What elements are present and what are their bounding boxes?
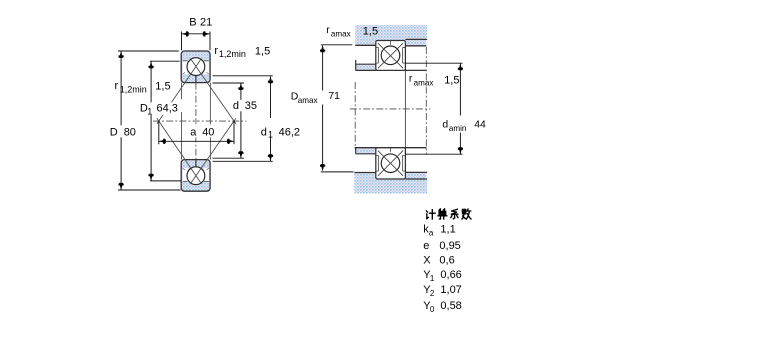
svg-text:r: r — [214, 45, 218, 57]
upper ring section — [181, 51, 210, 83]
lower ring split tick — [390, 148, 392, 152]
svg-text:r: r — [409, 73, 413, 84]
svg-text:21: 21 — [200, 16, 212, 28]
svg-text:d: d — [442, 120, 448, 131]
shaft seat line bottom — [355, 147, 427, 149]
shaft seat line top — [356, 69, 427, 71]
housing top-right bore and shoulder lines — [405, 39, 427, 45]
lower bearing box — [376, 148, 406, 179]
housing top hatch slab — [355, 25, 427, 40]
shaft shoulder top-left edges — [356, 60, 376, 70]
dimension a: dimension line — [159, 140, 234, 142]
svg-text:X: X — [423, 254, 431, 266]
svg-text:1,07: 1,07 — [440, 284, 461, 296]
housing bottom-left shoulder bore line — [354, 172, 375, 174]
horizontal axis centerline — [153, 120, 247, 122]
housing bottom-right shoulder hatch — [405, 172, 426, 179]
dimension B: dimension line — [182, 33, 211, 35]
svg-text:a: a — [429, 228, 434, 237]
housing bottom hatch slab — [354, 179, 427, 193]
svg-text:r: r — [115, 80, 119, 92]
svg-text:44: 44 — [474, 119, 486, 130]
dimension d1: line + arrows + extensions — [270, 76, 272, 161]
vertical centerline between sections — [195, 83, 197, 160]
svg-text:d: d — [233, 100, 239, 112]
svg-text:0: 0 — [430, 305, 435, 314]
upper ball contact X — [378, 43, 403, 68]
upper bearing raceway profiles — [376, 48, 405, 64]
contact-angle line bottom-ball through left vertex — [157, 118, 202, 184]
svg-text:1: 1 — [430, 274, 435, 283]
shaft axis centerline — [350, 108, 430, 110]
dimension B: extension lines — [182, 32, 211, 51]
svg-text:1,5: 1,5 — [155, 81, 170, 93]
upper bearing box — [376, 41, 406, 71]
svg-text:1,5: 1,5 — [363, 25, 378, 37]
svg-text:amin: amin — [449, 124, 467, 133]
shaft shoulder bottom-left hatch — [356, 148, 376, 154]
lower ball contact X — [378, 151, 403, 176]
contact-angle line top-ball through left vertex — [157, 59, 202, 124]
svg-text:d: d — [261, 126, 267, 138]
svg-text:amax: amax — [298, 96, 318, 105]
svg-text:amax: amax — [331, 30, 351, 39]
svg-text:0,66: 0,66 — [440, 269, 461, 281]
svg-text:a: a — [190, 127, 197, 139]
svg-text:1: 1 — [268, 130, 273, 140]
housing top-left shoulder hatch — [355, 40, 376, 46]
upper ball — [187, 58, 205, 76]
boundary centerline left — [354, 82, 356, 148]
svg-text:0,95: 0,95 — [439, 240, 460, 252]
upper bearing ball — [381, 46, 400, 65]
svg-text:1: 1 — [147, 106, 152, 116]
svg-text:r: r — [326, 25, 330, 36]
label d1 46,2 (with white mask) — [260, 118, 302, 137]
title 计算系数 (drawn as paths) — [426, 209, 471, 219]
lower ball — [187, 167, 205, 185]
svg-text:e: e — [423, 240, 429, 252]
shaft shoulder top-left hatch — [356, 64, 376, 70]
label Damax 71 (white mask) — [289, 91, 340, 105]
housing top-left shoulder bore line — [355, 44, 376, 46]
dimension d: line + arrows + extensions — [240, 83, 242, 158]
lower ring section — [181, 160, 210, 192]
dimension D1: line + arrows + extensions — [150, 61, 152, 181]
svg-text:amax: amax — [414, 79, 434, 88]
dimension a: arrows — [159, 139, 166, 143]
label D 80 (with white mask) — [108, 125, 136, 137]
svg-text:2: 2 — [430, 289, 435, 298]
label a 40 (with white mask) — [188, 124, 217, 137]
svg-text:1,2min: 1,2min — [120, 84, 147, 94]
label damin 44 (white mask) — [442, 116, 487, 133]
svg-text:64,3: 64,3 — [157, 103, 178, 115]
housing bottom-right bore and shoulder lines — [405, 172, 427, 179]
housing top-right shoulder hatch — [406, 40, 427, 46]
svg-text:71: 71 — [328, 91, 340, 102]
svg-text:0,58: 0,58 — [440, 300, 461, 312]
svg-text:1,5: 1,5 — [444, 75, 459, 87]
lower bearing ball — [381, 154, 400, 173]
svg-text:1,1: 1,1 — [440, 224, 455, 236]
svg-text:35: 35 — [245, 100, 257, 112]
svg-text:0,6: 0,6 — [439, 254, 454, 266]
svg-text:D: D — [110, 127, 118, 139]
boundary centerline right — [425, 47, 427, 154]
contact-angle line top-ball through right vertex — [190, 59, 236, 124]
bearing inner-ring face extension line — [404, 70, 406, 147]
label D1 64,3 (with white mask over dim line) — [138, 102, 180, 115]
bore silhouette line left — [181, 83, 183, 160]
svg-text:40: 40 — [202, 127, 214, 139]
dimension Damax: line + arrows + extensions — [322, 46, 324, 171]
dimension damin: line + arrows + extensions — [459, 63, 461, 154]
svg-text:1,2min: 1,2min — [219, 49, 246, 59]
bore silhouette line right — [209, 83, 211, 160]
dimension a: extension lines from diamond vertices — [159, 121, 234, 144]
shaft shoulder bottom-left edges — [356, 148, 376, 154]
contact-angle line bottom-ball through right vertex — [190, 118, 236, 184]
svg-text:80: 80 — [124, 127, 136, 139]
svg-text:1,5: 1,5 — [255, 45, 270, 57]
lower bearing raceway profiles — [376, 155, 405, 171]
label d 35 (with white mask) — [232, 100, 260, 112]
svg-text:46,2: 46,2 — [279, 127, 300, 139]
svg-text:B: B — [189, 16, 196, 28]
upper ring split tick — [390, 41, 392, 45]
dimension D: line + arrows + extensions — [120, 51, 122, 190]
housing bottom-left shoulder hatch — [354, 173, 375, 180]
dimension B: arrows — [182, 32, 189, 36]
